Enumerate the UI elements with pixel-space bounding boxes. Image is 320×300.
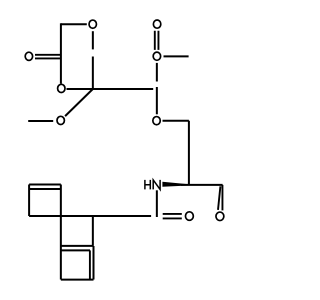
node O ring bottom xyxy=(58,84,65,92)
wire O to corner xyxy=(163,120,189,122)
wire stereocenter to aldehyde C xyxy=(181,184,223,186)
wire square3 top edge xyxy=(61,249,90,251)
node O methoxy xyxy=(57,116,64,124)
wire square1 inner double line xyxy=(30,188,61,190)
wire methyl right of peroxy O xyxy=(164,55,189,57)
wire square1 top edge xyxy=(29,184,61,186)
wire ring right upper O-C xyxy=(92,31,94,49)
wire corner down to stereocenter xyxy=(188,121,190,185)
node O peroxy bottom xyxy=(153,52,160,60)
wire square3 outer right edge xyxy=(93,246,95,280)
node O ring top xyxy=(89,20,96,28)
wire methoxy methyl xyxy=(28,120,53,122)
wire long bottom horizontal xyxy=(29,215,151,217)
node O carbonyl left xyxy=(25,52,32,60)
wire peroxy O down xyxy=(156,63,158,82)
wire amide C=O double bond xyxy=(163,214,182,219)
node O chain xyxy=(153,117,160,125)
wire ring right lower xyxy=(92,57,94,90)
wire N-H down bond xyxy=(156,190,158,217)
node O aldehyde xyxy=(216,212,224,221)
wire C=O double bond left xyxy=(35,55,61,59)
wire aldehyde C=O double bond xyxy=(221,185,223,211)
wire square2 right edge xyxy=(92,216,94,246)
wire square2 bottom edge xyxy=(61,245,93,247)
wire O=O double bond xyxy=(155,31,159,50)
node O peroxy top xyxy=(153,20,160,28)
wire diagonal C-OMe xyxy=(65,89,93,116)
wire middle shared vertical xyxy=(60,185,62,280)
wire ring left side xyxy=(60,23,62,83)
node O amide xyxy=(185,212,193,221)
wire square3 inner right line xyxy=(89,250,91,279)
node HN label xyxy=(145,180,160,190)
wedge bond HN to stereocenter xyxy=(162,182,188,187)
wire square1 left edge xyxy=(28,185,30,217)
wire ring top C-O xyxy=(61,23,87,25)
wire chain down to O xyxy=(156,87,158,114)
wire square3 bottom edge xyxy=(61,279,94,281)
wire long horizontal ring C to chain xyxy=(67,88,154,90)
